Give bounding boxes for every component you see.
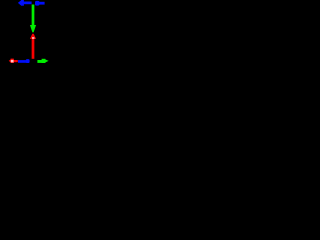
background <box>0 0 66 66</box>
blue -X axis arrow (top left, pointing left) <box>18 0 32 6</box>
red +Y axis arrow (vertical line, pointing up) <box>30 34 36 59</box>
green -Y axis arrow (vertical line, pointing down) <box>30 5 36 33</box>
red arrow (bottom left, pointing left) <box>9 59 18 63</box>
blue +X axis handle dot with stub (top right) <box>35 1 45 6</box>
blue line with end dot (bottom middle) <box>18 59 30 63</box>
green arrow (bottom right, pointing right) <box>37 59 48 63</box>
